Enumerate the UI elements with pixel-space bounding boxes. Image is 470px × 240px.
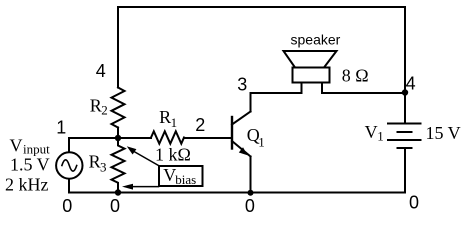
svg-text:1: 1 (377, 129, 384, 144)
transistor Q1 collector diagonal (232, 112, 251, 125)
wire collector vertical up to node 3 (250, 93, 252, 112)
svg-text:speaker: speaker (291, 32, 341, 48)
junction node dot R3 bottom ground (115, 189, 121, 195)
svg-text:4: 4 (406, 73, 416, 93)
speaker left leg (301, 83, 303, 94)
speaker body rectangle (293, 68, 330, 83)
junction node dot R2/R3/node1 (115, 135, 121, 141)
svg-text:0: 0 (245, 196, 255, 216)
wire source bottom to ground rail (68, 179, 70, 193)
wire battery bottom to ground rail (404, 149, 406, 193)
wire top rail node 4 (118, 6, 405, 8)
wire node 1 horizontal (source to junction) (69, 137, 118, 139)
svg-text:R: R (159, 107, 171, 127)
junction node dot emitter ground (248, 190, 254, 196)
svg-text:2: 2 (101, 103, 108, 118)
svg-text:1: 1 (258, 134, 265, 149)
svg-text:R: R (89, 151, 101, 171)
transistor Q1 emitter diagonal (232, 141, 251, 157)
transistor Q1 emitter arrowhead (239, 147, 248, 155)
battery V1 long plate top (388, 123, 421, 125)
svg-text:2: 2 (195, 115, 205, 135)
wire node 2 right segment (R1 to Q1 base) (184, 137, 232, 139)
wire right vertical top rail to battery (404, 7, 406, 123)
svg-text:15 V: 15 V (426, 123, 461, 143)
wire speaker to node 4 (322, 92, 405, 94)
speaker cone trapezoid (284, 51, 337, 68)
svg-text:V: V (10, 136, 23, 156)
svg-text:3: 3 (237, 75, 247, 95)
junction node dot battery top node 4 (402, 89, 408, 95)
svg-text:0: 0 (62, 196, 72, 216)
wire node 3 horizontal to speaker (251, 92, 302, 94)
svg-text:0: 0 (110, 196, 120, 216)
V_bias callout box (159, 166, 203, 186)
transistor Q1 base bar (231, 117, 233, 149)
svg-text:2 kHz: 2 kHz (5, 174, 49, 194)
svg-text:1 kΩ: 1 kΩ (155, 144, 191, 164)
AC source sine wave (62, 160, 77, 171)
AC source V_input circle (56, 152, 82, 178)
V_bias arrowhead upper (127, 146, 137, 154)
battery V1 long plate lower (388, 139, 421, 141)
resistor R3 (112, 138, 125, 193)
wire R2 bottom to node 1/2 junction (117, 128, 119, 139)
svg-text:0: 0 (409, 193, 419, 213)
svg-text:V: V (365, 122, 378, 142)
svg-text:8 Ω: 8 Ω (342, 66, 369, 86)
svg-text:1: 1 (171, 115, 178, 130)
resistor R2 (112, 88, 125, 128)
battery V1 short plate bottom (398, 147, 412, 149)
V_bias arrow line to R3 bottom (132, 186, 159, 188)
wire emitter vertical down to ground (250, 157, 252, 193)
svg-text:1: 1 (56, 118, 66, 138)
wire left vertical from top rail to R2 (117, 7, 119, 88)
svg-text:1.5 V: 1.5 V (10, 155, 50, 175)
svg-text:4: 4 (96, 61, 106, 81)
battery V1 short plate upper (398, 131, 412, 133)
svg-text:bias: bias (175, 172, 196, 187)
speaker right leg (321, 83, 323, 94)
wire ground rail node 0 (69, 192, 405, 194)
svg-text:3: 3 (100, 159, 107, 174)
svg-text:R: R (90, 95, 102, 115)
wire source top to node 1 (68, 138, 70, 152)
V_bias arrow line to R3 top (134, 152, 159, 166)
wire node 2 left segment (junction to R1) (118, 137, 151, 139)
resistor R1 (151, 131, 184, 143)
V_bias arrowhead lower (122, 184, 133, 190)
